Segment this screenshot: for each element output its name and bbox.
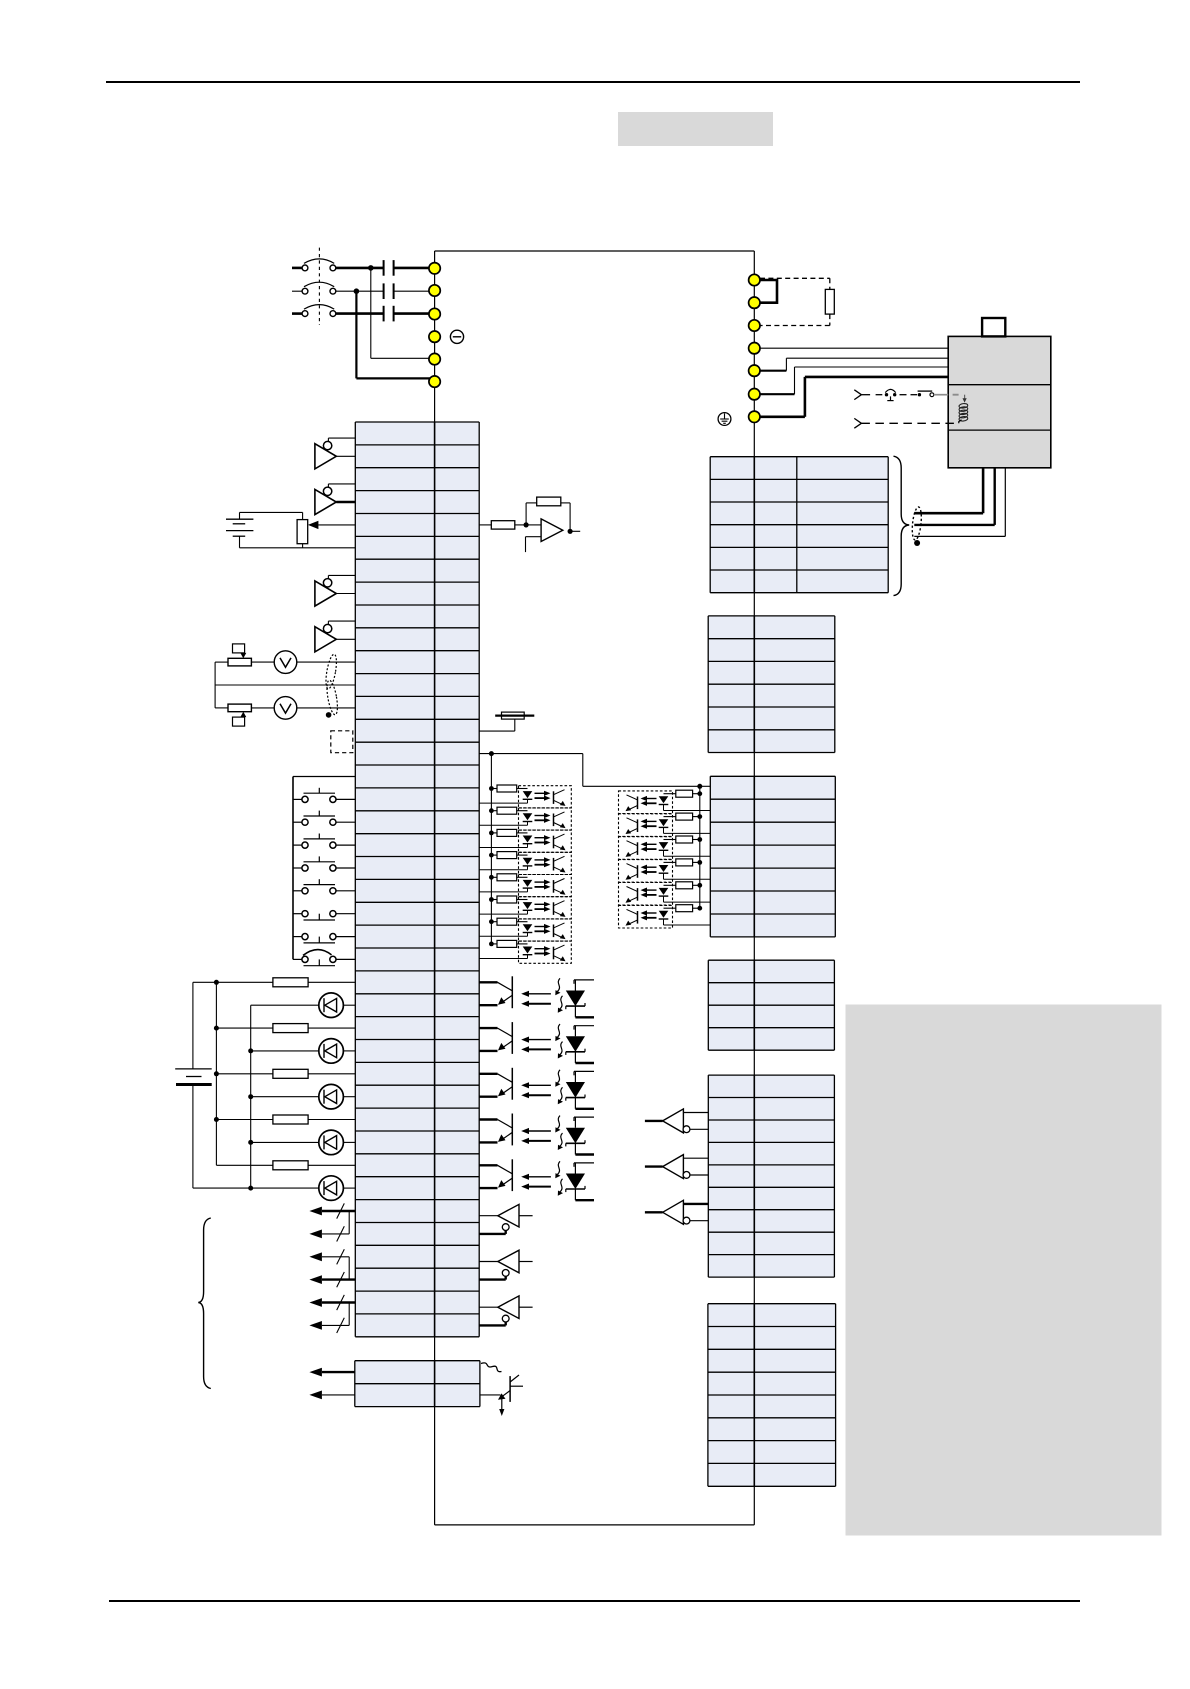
analog input 1 potentiometer body — [228, 658, 251, 666]
converter enclosure top wire — [435, 250, 755, 252]
digital input optocoupler DIR6 LED — [659, 911, 669, 918]
safety terminal table — [708, 1075, 834, 1277]
analog input 1 wire with voltmeter — [215, 661, 228, 663]
digital input terminal table right — [710, 776, 835, 937]
digital input optocoupler DIR2 resistor — [697, 814, 702, 819]
digital output DO5 zener return wire — [575, 1199, 594, 1201]
digital input optocoupler DI2 return wire — [479, 824, 527, 826]
digital output DO2 emitter wire — [502, 1041, 513, 1049]
digital input switch DI5 actuator — [304, 884, 336, 886]
wire from L2 node down — [355, 291, 357, 378]
status output pair 1 link — [348, 1211, 350, 1234]
safety input inverter 1 circle — [683, 1126, 690, 1133]
digital input switch DI2 actuator — [304, 815, 336, 817]
brake supply dash segment — [876, 394, 883, 396]
output rail inner — [250, 1005, 252, 1188]
safety input inverter 3 upper wire — [683, 1203, 708, 1205]
communication terminal table — [708, 616, 835, 753]
digital input switch DI8 wire to terminal — [336, 958, 355, 960]
digital input switch DI2 lead — [293, 821, 302, 823]
digital output DO2 light arrows — [527, 1039, 551, 1041]
digital output DO4 zener return wire — [575, 1153, 594, 1155]
safety input inverter 2 upper wire — [683, 1157, 708, 1159]
optional connection dashed box rows 14-15 — [331, 731, 353, 753]
protective earth symbol — [718, 413, 731, 426]
safety input inverter 2 input wire — [645, 1165, 663, 1167]
interface group brace — [198, 1218, 211, 1389]
analog output buffer rows 7-8 input wire — [328, 574, 355, 576]
output driver triangle 1 — [498, 1204, 519, 1227]
junction node L1 — [368, 265, 374, 271]
output driver triangle 3 gate wire — [479, 1324, 506, 1326]
aux output transistor bar — [509, 1376, 511, 1402]
digital input optocoupler DI6 light arrows — [535, 903, 546, 905]
page footer rule — [109, 1600, 1080, 1602]
analog output buffer rows 3-4 input wire — [328, 483, 355, 485]
output terminal 4 — [749, 343, 760, 354]
wire L2 fuse to terminal — [394, 290, 429, 292]
input terminal 2 — [429, 285, 440, 296]
circuit breaker Q1 pole 1 arc — [304, 259, 334, 264]
wire W2 to motor — [760, 393, 795, 395]
encoder interface brace — [894, 456, 910, 595]
digital input switch DI1 contacts — [302, 796, 308, 802]
digital input optocoupler DIR6 return wire — [664, 924, 711, 926]
digital output DO2 collector wire — [479, 1027, 497, 1029]
digital output DO1 isolation squiggles — [558, 978, 561, 991]
analog output buffer rows 1-2 amplifier triangle — [315, 444, 336, 469]
fuse F2 bars — [383, 283, 385, 299]
digital output indicator LED 2 — [251, 1050, 319, 1052]
digital output DO5 collector wire — [479, 1164, 497, 1166]
brake coil feed corner — [964, 395, 966, 399]
digital input optocoupler DIR3 phototransistor — [637, 842, 639, 855]
digital output DO4 collector wire — [479, 1118, 497, 1120]
motor cable core 2 — [994, 468, 996, 525]
safety input inverter 1 lower wire — [690, 1128, 708, 1130]
digital input optocoupler DIR2 return wire — [664, 832, 711, 834]
circuit breaker Q1 pole 3 contact circles — [302, 311, 308, 317]
digital input switch DI6 wire to terminal — [336, 913, 355, 915]
analog output buffer rows 9-10 inversion circle — [323, 624, 331, 632]
wire L1 node to DC terminal — [371, 357, 429, 359]
wire L1 breaker to fuse — [336, 267, 384, 270]
left bus wire below table — [434, 1337, 436, 1525]
digital input optocoupler DI5 phototransistor — [553, 880, 555, 893]
digital input optocoupler DIR3 light arrows — [646, 843, 657, 845]
output terminal 3 — [749, 320, 760, 331]
digital input optocoupler DI3 resistor — [489, 831, 494, 836]
digital output DO5 light arrows — [527, 1176, 551, 1178]
digital output DO5 isolation squiggles — [558, 1161, 561, 1174]
output driver triangle 3 input wire — [479, 1306, 498, 1308]
digital input optocoupler DIR2 light arrows — [646, 820, 657, 822]
analog input op-amp output node — [568, 529, 573, 534]
digital output DO1 light arrows — [527, 993, 551, 995]
digital input optocoupler DIR5 LED — [659, 888, 669, 895]
analog output buffer rows 3-4 amplifier triangle — [315, 489, 336, 514]
output terminal 7 — [749, 411, 760, 422]
potentiometer wiper arrow — [318, 524, 355, 526]
digital input optocoupler DI4 light arrows — [535, 859, 546, 861]
digital input optocoupler DIR5 box — [619, 883, 673, 906]
digital input common feed node — [489, 751, 494, 756]
output driver triangle 3 — [498, 1296, 519, 1319]
safety input inverter 2 circle — [683, 1172, 690, 1179]
output driver triangle 1 inversion circle — [502, 1224, 509, 1231]
converter enclosure bottom wire — [435, 1524, 755, 1526]
digital input optocoupler DIR3 resistor — [697, 837, 702, 842]
aux table output arrow row 2 — [322, 1394, 355, 1396]
digital input optocoupler DI5 resistor — [489, 875, 494, 880]
digital input optocoupler DI8 LED — [523, 947, 533, 954]
digital output DO3 zener return wire — [575, 1108, 594, 1110]
analog input op-amp plus input wire — [526, 536, 542, 538]
fuse F3 bars — [383, 306, 385, 322]
voltmeter V2 — [274, 697, 297, 720]
analog output buffer rows 3-4 output wire — [336, 501, 355, 503]
analog output buffer rows 3-4 inversion circle — [323, 487, 331, 495]
digital input switch DI7 wire to terminal — [336, 936, 355, 938]
digital input optocoupler DI1 light arrows — [535, 792, 546, 794]
output driver triangle 2 gate wire — [479, 1278, 506, 1280]
digital output indicator LED 3 — [251, 1096, 319, 1098]
digital input optocoupler DI6 resistor — [489, 897, 494, 902]
digital input feed node right — [697, 784, 702, 789]
plug contact in brake line — [918, 393, 921, 396]
analog output buffer rows 9-10 output wire — [336, 638, 355, 640]
output rail mid — [215, 982, 217, 1165]
analog output buffer rows 9-10 amplifier triangle — [315, 627, 336, 652]
brake coil — [959, 403, 968, 409]
digital output DO1 emitter wire — [502, 995, 513, 1003]
digital output DO4 transistor bar — [511, 1114, 513, 1146]
right terminal bus wire — [753, 251, 755, 1525]
wire PE to motor — [760, 415, 805, 418]
digital input optocoupler DI3 LED — [523, 836, 533, 843]
digital input optocoupler DIR6 box — [619, 905, 673, 928]
digital input switch DI5 contacts — [302, 888, 308, 894]
digital input optocoupler DIR5 resistor — [697, 883, 702, 888]
digital output DO3 emitter wire — [502, 1087, 513, 1095]
braking resistor R-brake dashed leads — [760, 277, 830, 279]
brake return chevron connector — [854, 418, 861, 423]
digital input optocoupler DI3 return wire — [479, 847, 527, 849]
brake coil return hook — [959, 420, 962, 424]
digital input optocoupler DI7 phototransistor — [553, 925, 555, 938]
digital input feed drop wire — [582, 754, 584, 787]
status output arrow row 38 — [322, 1278, 355, 1280]
status output arrow row 39 — [322, 1301, 355, 1303]
digital input optocoupler DI5 box — [519, 875, 572, 897]
digital output DO2 zener return wire — [575, 1062, 594, 1064]
analog input shield node — [326, 712, 332, 718]
analog output buffer rows 9-10 input wire — [328, 620, 355, 622]
digital output DO4 zener diode — [573, 1117, 575, 1121]
digital output DO5 transistor bar — [511, 1159, 513, 1191]
relay output terminal table — [708, 960, 834, 1050]
digital input optocoupler DIR2 phototransistor — [637, 819, 639, 832]
wire L3 breaker to fuse — [336, 312, 384, 315]
input terminal 1 — [429, 263, 440, 274]
digital input optocoupler DI3 phototransistor — [553, 836, 555, 849]
motor section divider 2 — [948, 429, 1051, 431]
output supply battery — [175, 1068, 212, 1070]
digital input optocoupler DI8 phototransistor — [553, 947, 555, 960]
digital output DO3 light arrows — [527, 1084, 551, 1086]
wire L2 breaker to fuse — [336, 290, 384, 292]
digital input optocoupler DIR2 box — [619, 814, 673, 837]
output driver triangle 1 input wire — [479, 1215, 498, 1217]
digital input switch DI1 wire to terminal — [336, 798, 355, 800]
reference potentiometer body — [297, 520, 308, 544]
aux output squiggle — [481, 1363, 502, 1372]
digital input optocoupler DI1 LED — [523, 791, 533, 798]
analog output buffer rows 1-2 inversion circle — [323, 441, 331, 449]
auxiliary terminal table bottom — [355, 1361, 480, 1407]
digital input switch DI3 wire to terminal — [336, 844, 355, 846]
digital input optocoupler DI2 LED — [523, 813, 533, 820]
digital input optocoupler DIR4 LED — [659, 865, 669, 872]
wire U2 to motor — [760, 347, 948, 349]
motor section divider 1 — [948, 384, 1051, 386]
status output arrow row 40 — [322, 1324, 349, 1326]
wire L1 supply lead — [292, 267, 302, 270]
input terminal 5 — [429, 353, 440, 364]
digital input switch DI1 lead — [293, 798, 302, 800]
digital output load resistor 4 — [216, 1119, 273, 1121]
output terminal 6 — [749, 389, 760, 400]
digital input optocoupler DI7 LED — [523, 924, 533, 931]
wire L1 fuse to terminal — [394, 267, 429, 270]
encoder terminal table — [710, 457, 888, 593]
digital input optocoupler DIR2 LED — [659, 819, 669, 826]
digital input switch DI8 lead — [293, 958, 302, 960]
digital output DO2 transistor bar — [511, 1022, 513, 1054]
aux table output arrow row 1 — [322, 1371, 355, 1373]
circuit breaker linkage dashed line — [318, 248, 320, 325]
option terminal table — [708, 1304, 836, 1487]
circuit breaker Q1 pole 2 arc — [304, 282, 334, 287]
digital input switch rail — [292, 777, 294, 960]
analog input op-amp input node — [524, 522, 529, 527]
page header rule — [106, 81, 1080, 83]
digital input switch DI8 actuator — [304, 965, 336, 967]
aux output down arrow — [501, 1398, 503, 1410]
digital output DO3 isolation squiggles — [558, 1070, 561, 1083]
digital input switch DI7 lead — [293, 936, 302, 938]
analog input op-amp triangle — [541, 519, 563, 542]
digital input optocoupler DIR6 light arrows — [646, 912, 657, 914]
status output arrow row 35 — [322, 1210, 355, 1212]
option module area box — [846, 1005, 1162, 1536]
digital input optocoupler DI1 return wire — [479, 802, 527, 804]
aux output collector — [510, 1375, 519, 1382]
braking chopper jumper wire — [754, 280, 777, 303]
safety input inverter 3 triangle — [663, 1200, 684, 1224]
digital input optocoupler DI6 return wire — [479, 913, 527, 915]
analog input 1 pot tab and arrow — [233, 644, 245, 653]
digital input optocoupler DIR1 phototransistor — [637, 797, 639, 810]
digital output DO2 zener diode — [573, 1026, 575, 1030]
digital input optocoupler DIR4 return wire — [664, 878, 711, 880]
circuit breaker Q1 pole 2 contact circles — [302, 288, 308, 294]
circuit breaker Q1 pole 1 contact circles — [302, 265, 308, 271]
digital input optocoupler DIR1 LED — [659, 796, 669, 803]
wire from L1 node down — [370, 268, 372, 358]
digital output DO3 transistor bar — [511, 1068, 513, 1100]
reference potentiometer supply battery — [239, 512, 241, 519]
brake return dashed wire — [861, 422, 958, 424]
safety input inverter 3 circle — [683, 1217, 690, 1224]
input terminal 6 — [429, 376, 440, 387]
digital output load resistor 2 — [216, 1027, 273, 1029]
safety input inverter 1 triangle — [663, 1109, 684, 1133]
digital input optocoupler DIR3 box — [619, 837, 673, 860]
thermal contact in brake line — [885, 393, 888, 396]
analog input op-amp feedback resistor — [537, 497, 561, 506]
digital input switch DI6 contacts — [302, 911, 308, 917]
digital input feed wire into table — [700, 785, 711, 787]
output driver triangle 2 inversion circle — [502, 1270, 509, 1277]
digital input optocoupler DI2 box — [519, 808, 572, 830]
DC link minus symbol — [450, 330, 463, 343]
digital output indicator LED 4 — [251, 1141, 319, 1143]
safety input inverter 1 input wire — [645, 1120, 663, 1122]
digital input switch DI4 lead — [293, 867, 302, 869]
analog input common rail — [214, 662, 216, 708]
digital input optocoupler DIR4 resistor — [697, 860, 702, 865]
digital input optocoupler DIR4 box — [619, 860, 673, 883]
status output pair 3 link — [348, 1303, 350, 1326]
digital input optocoupler DI5 LED — [523, 880, 533, 887]
safety input inverter 1 upper wire — [683, 1112, 708, 1114]
aux output emitter with arrow — [501, 1391, 510, 1398]
digital output load resistor 5 — [216, 1164, 273, 1166]
voltmeter V1 — [274, 651, 297, 674]
digital input optocoupler DIR1 return wire — [664, 810, 711, 812]
digital input switch DI2 contacts — [302, 819, 308, 825]
digital input switch DI8 spring arc — [303, 950, 332, 956]
digital input optocoupler DI8 return wire — [479, 958, 527, 960]
analog ground mid wire — [215, 684, 355, 686]
digital input optocoupler DI5 light arrows — [535, 881, 546, 883]
junction node L2 — [354, 288, 360, 294]
digital output DO3 zener diode — [573, 1071, 575, 1075]
digital input optocoupler DI2 phototransistor — [553, 814, 555, 827]
digital input optocoupler DIR5 phototransistor — [637, 888, 639, 901]
digital output DO3 collector wire — [479, 1073, 497, 1075]
digital input optocoupler DI3 box — [519, 830, 572, 852]
digital input optocoupler DI1 phototransistor — [553, 791, 555, 804]
digital output DO1 transistor bar — [511, 976, 513, 1008]
output supply rail outer — [192, 982, 194, 1069]
circuit breaker Q1 pole 3 arc — [304, 305, 334, 310]
digital input optocoupler DI4 box — [519, 852, 572, 874]
digital input switch DI6 lead — [293, 913, 302, 915]
digital input optocoupler DIR3 LED — [659, 842, 669, 849]
digital input optocoupler DI1 resistor — [489, 786, 494, 791]
digital output DO1 zener diode — [573, 980, 575, 984]
safety input inverter 2 lower wire — [690, 1174, 708, 1176]
digital input optocoupler DI2 resistor — [489, 808, 494, 813]
digital input optocoupler DI7 box — [519, 919, 572, 941]
digital input optocoupler DIR1 box — [619, 791, 673, 814]
digital output DO1 zener return wire — [575, 1016, 594, 1018]
digital input optocoupler DIR1 light arrows — [646, 798, 657, 800]
analog input twisted pair symbol — [324, 654, 339, 690]
digital input switch DI7 actuator — [304, 942, 336, 944]
digital input optocoupler DI1 box — [519, 786, 572, 808]
digital input switch DI6 actuator — [304, 919, 336, 921]
analog input 2 pot tab and arrow — [233, 717, 245, 726]
digital input optocoupler DI7 resistor — [489, 919, 494, 924]
digital input optocoupler DI6 LED — [523, 902, 533, 909]
brake supply chevron connector — [854, 390, 861, 395]
status output arrow row 36 — [322, 1233, 349, 1235]
left terminal bus wire — [434, 251, 436, 422]
motor cable shield ellipse — [911, 507, 923, 541]
wire L3 fuse to terminal — [394, 312, 429, 315]
analog output buffer rows 1-2 input wire — [328, 437, 355, 439]
digital input switch DI4 contacts — [302, 865, 308, 871]
analog output buffer rows 7-8 inversion circle — [323, 579, 331, 587]
digital input common wire — [293, 776, 355, 778]
output driver triangle 1 gate wire — [479, 1233, 506, 1235]
digital input optocoupler DIR6 phototransistor — [637, 911, 639, 924]
analog input op-amp minus input wire — [526, 524, 541, 526]
digital input switch DI3 contacts — [302, 842, 308, 848]
control terminal table — [355, 422, 479, 1337]
digital output DO5 emitter wire — [502, 1178, 513, 1186]
digital input optocoupler rail right — [699, 786, 701, 908]
digital input optocoupler DI2 light arrows — [535, 815, 546, 817]
digital input optocoupler DIR4 light arrows — [646, 866, 657, 868]
output driver triangle 2 — [498, 1250, 519, 1273]
brake line gray lead into motor — [934, 394, 948, 396]
braking resistor R-brake body — [825, 289, 834, 314]
digital input optocoupler DI4 LED — [523, 858, 533, 865]
status output arrow row 37 — [322, 1256, 349, 1258]
digital input optocoupler DI7 light arrows — [535, 926, 546, 928]
digital input switch DI1 actuator — [304, 792, 336, 794]
digital input switch DI5 wire to terminal — [336, 890, 355, 892]
analog output buffer rows 1-2 output wire — [336, 455, 355, 457]
digital input optocoupler DIR6 resistor — [697, 906, 702, 911]
digital input switch DI2 wire to terminal — [336, 821, 355, 823]
wire L3 supply lead — [292, 312, 302, 315]
motor cable shield node — [914, 540, 920, 546]
motor cable core 1 — [982, 468, 985, 513]
digital output indicator LED 5 — [193, 1187, 319, 1189]
analog output buffer rows 7-8 amplifier triangle — [315, 581, 336, 606]
digital input optocoupler rail left — [490, 754, 492, 944]
digital input optocoupler DI5 return wire — [479, 891, 527, 893]
analog input op-amp feedback wire — [525, 503, 527, 525]
digital output load resistor 3 — [216, 1073, 273, 1075]
motor cable core 3 — [1004, 468, 1006, 537]
digital output DO4 isolation squiggles — [558, 1116, 561, 1129]
safety input inverter 3 input wire — [645, 1211, 663, 1213]
digital input switch DI7 contacts — [302, 934, 308, 940]
status output pair 2 link — [348, 1257, 350, 1280]
input terminal 4 — [429, 331, 440, 342]
digital input optocoupler DI6 box — [519, 897, 572, 919]
temperature sensor fuse element — [495, 714, 534, 716]
wire L2 node to DC terminal — [356, 377, 430, 379]
digital input switch DI4 wire to terminal — [336, 867, 355, 869]
output terminal 1 — [749, 274, 760, 285]
